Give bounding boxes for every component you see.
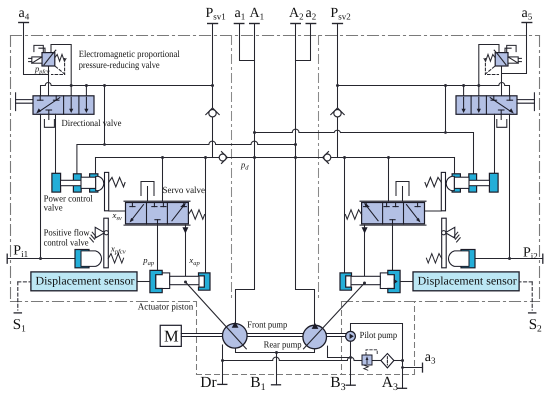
piston rod white [61, 180, 91, 185]
relief valve pilot circuit [362, 350, 377, 370]
check valve CV1 on Psv1 line [206, 108, 219, 117]
wire directional valve left bottom port to Pi1 line [40, 114, 42, 258]
wire Psv2 vertical [337, 24, 339, 108]
wire Psv1 vertical [212, 24, 214, 108]
node junction servo riser left [161, 156, 164, 159]
solenoid symbol left EM valve [29, 57, 42, 63]
wire xsv plate to servo valve right [425, 210, 442, 212]
wire electromagnetic valve supply right [479, 45, 499, 96]
node junction Pi2 / directional valve drop [508, 257, 511, 260]
tank symbol above left EM valve [34, 45, 45, 52]
pilot pump circle [346, 331, 356, 341]
node junction piston center right [363, 282, 366, 285]
wire Pi2 line to right positive flow control valve [475, 258, 543, 260]
wire riser pd rail to left servo valve [162, 158, 164, 202]
wire directional valve right bottom port to Pi2 line [509, 114, 511, 258]
positive flow control valve left [75, 250, 102, 268]
bottom T stub left section [48, 110, 50, 114]
actuator piston right [340, 270, 400, 292]
node junction servo riser right [387, 156, 390, 159]
node junction piston riser right [343, 156, 346, 159]
wire electromagnetic valve supply left [51, 45, 71, 96]
swashplate link front pump [186, 282, 247, 349]
spring left of right pfcv plate [426, 254, 441, 263]
wire suction line front-rear pumps [236, 348, 315, 352]
wire a2 merging into A2 [296, 24, 311, 61]
front pump circle [223, 324, 248, 349]
actuator piston left [150, 270, 210, 292]
svg-text:xsv: xsv [112, 210, 122, 222]
port a2 tick [306, 23, 315, 25]
svg-text:Pi1: Pi1 [13, 243, 28, 259]
node center dash-dot line right [318, 36, 320, 302]
power control valve left [52, 173, 104, 192]
svg-text:xpfcv: xpfcv [110, 243, 126, 255]
feedback plate right power control valve [441, 172, 445, 210]
wire Pi1 line to positive flow control valve [7, 258, 75, 260]
wire directional valve left bottom port to power control block1 [55, 114, 57, 173]
electromagnetic proportional pressure-reducing valve left (body) [42, 50, 56, 66]
svg-text:Psv1: Psv1 [206, 6, 226, 22]
port a5 tick [522, 22, 532, 24]
wire riser pd rail to left piston right cap [205, 158, 207, 273]
wire riser pd rail to right piston left cap [344, 158, 346, 273]
check valve CV4 on pd rail [323, 152, 331, 164]
svg-text:a1: a1 [235, 6, 246, 22]
wire electromagnetic valve output right [501, 66, 503, 96]
signal dashed S2 [519, 282, 532, 310]
pump unit dashed enclosure [197, 302, 415, 375]
T port stubs left section [39, 96, 41, 100]
flapper nozzle right [442, 227, 461, 242]
svg-text:Pilot pump: Pilot pump [360, 331, 398, 341]
flapper nozzle left [90, 227, 109, 242]
svg-text:valve: valve [44, 204, 63, 214]
wire rail L (A2 to left side) [77, 145, 209, 174]
wire rail L riser up to R1L [104, 86, 106, 145]
displacement sensor right [413, 272, 519, 291]
boundary dash-dot outer box [11, 36, 540, 302]
check valve CV2 on Psv2 line [331, 108, 344, 117]
check ball marker below left servo [182, 227, 188, 233]
positive flow control valve right [448, 250, 475, 268]
feedback plate left power control valve [105, 172, 109, 210]
wire Dr drain from front pump [222, 345, 224, 384]
svg-text:S1: S1 [13, 317, 26, 335]
section3 diagonal arrow [172, 205, 185, 221]
svg-text:a2: a2 [306, 6, 317, 22]
spring right of left servo valve [188, 210, 204, 219]
check ball marker below right servo [362, 227, 368, 233]
motor M box [160, 325, 181, 346]
svg-text:B3: B3 [330, 374, 345, 393]
svg-text:Pi2: Pi2 [523, 245, 538, 261]
feedback plate right positive flow control valve [442, 218, 447, 268]
cyan cylinder block2 [73, 174, 81, 192]
port A2 tick [291, 23, 300, 25]
node junction piston riser left [204, 156, 207, 159]
svg-text:a4: a4 [19, 6, 30, 22]
wire B1 drop [276, 353, 278, 385]
rear pump circle [303, 325, 327, 349]
wire electromagnetic valve output left [48, 66, 50, 96]
wire a3 spur [403, 367, 423, 369]
wire R1L pilot rail left [41, 86, 46, 96]
wire directional valve right bottom port to power control block1 [494, 114, 496, 173]
wire x_ap right servo left port down to piston center [364, 225, 366, 283]
wire rail pd [96, 157, 220, 159]
svg-text:Electromagnetic proportional: Electromagnetic proportional [79, 49, 180, 60]
wire pilot pump outlet loop [351, 324, 403, 389]
tank symbol below right directional valve [497, 114, 507, 127]
tank symbol above left servo valve [141, 182, 154, 202]
node junction B1 [275, 351, 278, 354]
svg-text:A3: A3 [382, 374, 398, 393]
tank symbol above right EM valve [505, 45, 516, 52]
spring of left EM valve [55, 54, 66, 61]
wire drain rail to pilot block [223, 360, 273, 362]
node junction R1R risers [477, 84, 480, 87]
spring right of left power plate [109, 177, 125, 186]
wire a1 merging into A1 [240, 24, 255, 61]
port a4 tick [19, 22, 29, 24]
actuation rod right directional valve [517, 93, 534, 111]
svg-text:Actuator piston: Actuator piston [138, 302, 194, 312]
wire riser to valve port3 right [463, 86, 465, 96]
svg-text:Dr: Dr [200, 374, 217, 391]
T port stubs right section [509, 96, 511, 100]
wire xsv plate to servo valve left [109, 210, 126, 212]
svg-text:pd: pd [240, 159, 249, 171]
svg-text:B1: B1 [250, 374, 265, 393]
section3 down arrow [85, 97, 87, 110]
spring left of right power plate [425, 177, 441, 186]
svg-text:Displacement sensor: Displacement sensor [36, 274, 135, 287]
port Psv2 tick [333, 23, 343, 25]
section1 down arrow [463, 97, 465, 110]
swashplate link rear pump [304, 283, 365, 349]
node junction Pi1 / directional valve drop [39, 257, 42, 260]
svg-text:A2: A2 [289, 6, 304, 22]
svg-text:Psv2: Psv2 [330, 6, 350, 22]
wire rail pd riser down to block3 [95, 158, 97, 174]
pilot feedback dashed right EM valve [485, 67, 498, 75]
port stubs right servo [417, 203, 419, 207]
wire p_ap right servo middle port down to piston right cap [392, 225, 394, 269]
node junction A2 / rail L [294, 143, 297, 146]
node junction B3 [349, 356, 352, 359]
servo valve right [360, 201, 426, 225]
svg-text:control valve: control valve [44, 238, 89, 248]
tank symbol above right servo valve [396, 182, 409, 202]
directional valve right (3-section body) [456, 96, 517, 115]
wire A1 main line to front pump [236, 24, 255, 323]
svg-text:Positive flow: Positive flow [44, 228, 90, 238]
wire sensor to left piston [137, 281, 150, 283]
port a1 tick [234, 23, 243, 25]
wire rail R riser up to R1R [445, 86, 447, 133]
section3 diagonal arrow [407, 205, 420, 221]
wire sensor to right piston [400, 281, 413, 283]
node junction A1 / rail R [253, 131, 256, 134]
left section diagonal arrow [39, 98, 60, 112]
wire riser pd rail to right servo valve [388, 158, 390, 202]
port Psv1 tick [208, 23, 218, 25]
svg-text:Directional valve: Directional valve [62, 119, 122, 129]
node junction piston center left [184, 281, 187, 284]
node junction Psv2 / R1R [336, 84, 339, 87]
svg-text:xap: xap [188, 255, 200, 267]
wire riser to valve port3 left [85, 86, 87, 96]
section2 down arrow [478, 97, 480, 110]
node junction A1 / rail pd [253, 156, 256, 159]
wire rail R (A1 to right side) [255, 132, 293, 134]
spring right of left pfcv plate [108, 254, 123, 263]
wire a4 to electromagnetic valve [24, 23, 49, 75]
spring left of right servo valve [345, 210, 361, 219]
cyan cylinder block1 [52, 173, 61, 192]
svg-text:Rear pump: Rear pump [264, 341, 302, 351]
section1 diagonal arrow [131, 205, 144, 221]
wire p_ap servo middle port down to piston left cap [157, 225, 159, 270]
pilot feedback dashed left EM valve [52, 67, 65, 75]
node junction A3 / drain rail [401, 359, 404, 362]
wire a5 to right electromagnetic valve [503, 23, 527, 74]
drive shaft double line M to front pump [181, 334, 345, 337]
svg-text:a5: a5 [522, 6, 533, 22]
directional valve left (3-section body) [33, 96, 94, 115]
cyan cylinder block3 [90, 174, 98, 192]
svg-text:pressure-reducing valve: pressure-reducing valve [79, 60, 160, 71]
port stubs left servo [131, 203, 133, 207]
node junction Psv1 / R1L [211, 84, 214, 87]
wire pilot pump suction / B3 line [350, 341, 352, 385]
svg-text:Displacement sensor: Displacement sensor [418, 274, 517, 287]
check valve CV3 on pd rail [219, 152, 227, 164]
filter diamond pilot circuit [381, 354, 394, 368]
node junction Dr / drain rail [221, 359, 224, 362]
solenoid symbol right EM valve [508, 57, 521, 63]
svg-text:S2: S2 [529, 317, 542, 335]
port A1 tick [250, 23, 259, 25]
node junction A2 / rail pd [294, 156, 297, 159]
port Pi2 tick [542, 254, 544, 263]
feedback plate left positive flow control valve [104, 218, 109, 268]
wire R1R pilot rail right [505, 86, 510, 96]
piston rod end marker right [394, 279, 398, 284]
node junction R1L risers [70, 84, 73, 87]
actuation rod left directional valve [16, 93, 33, 111]
section2 down arrow [70, 97, 72, 110]
power control valve right [446, 173, 498, 192]
svg-text:Servo valve: Servo valve [163, 186, 206, 196]
svg-text:pap: pap [142, 255, 155, 267]
port Pi1 tick [6, 254, 8, 263]
svg-text:a3: a3 [425, 350, 436, 366]
servo valve left [124, 201, 190, 225]
bottom T stub right section [500, 110, 502, 114]
wire rail pd riser down to right block3 [454, 158, 456, 174]
wire A2 main line to rear pump [296, 24, 315, 325]
wire x_ap servo right port down to piston center [185, 225, 187, 282]
node center dash-dot line left [231, 36, 233, 302]
svg-text:A1: A1 [250, 6, 265, 22]
displacement sensor left [31, 272, 137, 291]
right big section diagonal arrow [490, 98, 511, 112]
wire rear pump drain to B3 [328, 346, 351, 357]
spring of right EM valve [484, 54, 495, 61]
svg-text:M: M [164, 327, 179, 346]
svg-text:Front pump: Front pump [247, 321, 287, 331]
electromagnetic proportional pressure-reducing valve right (body) [494, 50, 508, 66]
signal dashed S1 [18, 282, 31, 310]
section1 diagonal arrow [366, 205, 379, 221]
tank symbol below left directional valve [44, 114, 54, 127]
